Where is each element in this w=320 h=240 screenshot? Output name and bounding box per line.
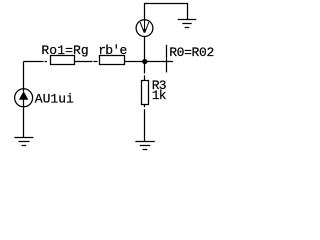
svg-text:AU1ui: AU1ui: [35, 91, 74, 106]
svg-text:Ro1=Rg: Ro1=Rg: [41, 43, 88, 58]
svg-text:rb'e: rb'e: [98, 43, 126, 58]
svg-text:R0=R02: R0=R02: [169, 45, 214, 60]
svg-text:1k: 1k: [152, 88, 167, 103]
